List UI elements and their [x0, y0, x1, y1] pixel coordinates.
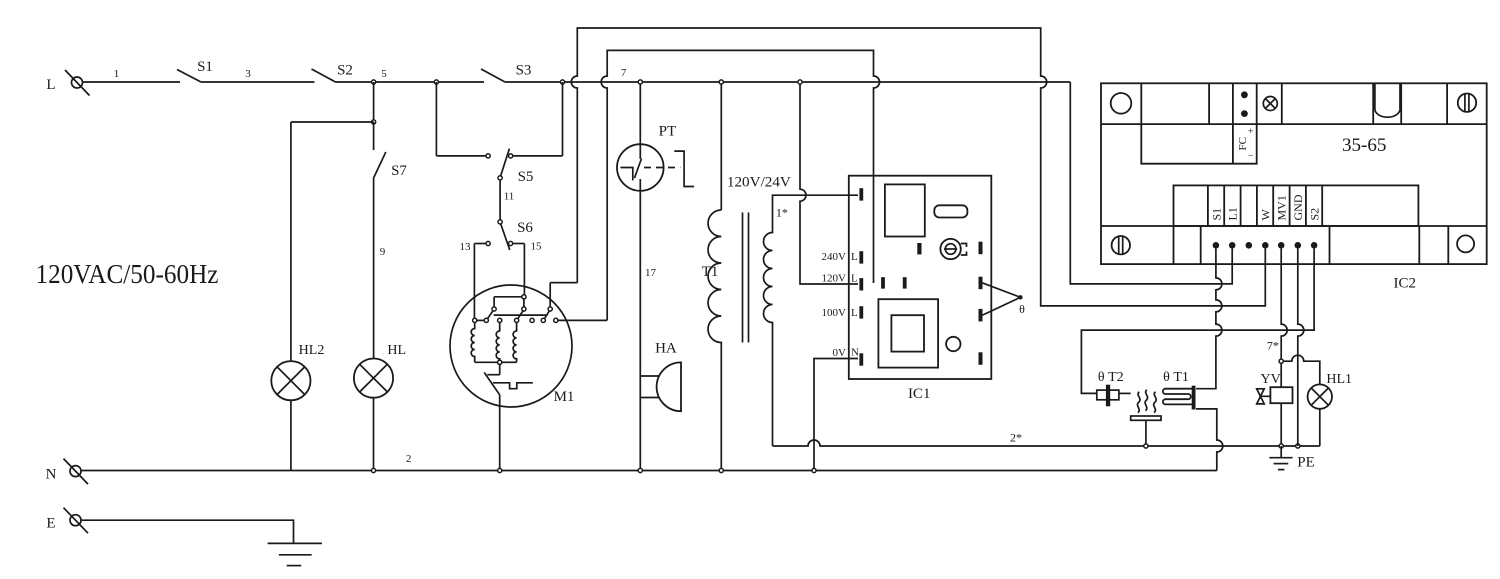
svg-text:HA: HA — [655, 340, 677, 356]
svg-text:−: − — [1248, 151, 1254, 162]
svg-text:T1: T1 — [702, 264, 719, 280]
svg-text:S1: S1 — [1209, 208, 1223, 221]
svg-text:5: 5 — [381, 68, 387, 80]
svg-text:S2: S2 — [1307, 208, 1321, 221]
svg-text:240V: 240V — [822, 251, 847, 263]
svg-text:L: L — [46, 77, 55, 93]
svg-text:S3: S3 — [516, 63, 532, 79]
svg-text:+: + — [1248, 127, 1254, 138]
svg-text:7*: 7* — [1267, 339, 1279, 353]
svg-text:L1: L1 — [1226, 207, 1240, 220]
svg-text:M1: M1 — [554, 389, 575, 405]
svg-text:120VAC/50-60Hz: 120VAC/50-60Hz — [36, 259, 219, 289]
svg-text:S5: S5 — [518, 169, 534, 185]
svg-text:1: 1 — [114, 68, 120, 80]
svg-text:L: L — [851, 251, 858, 263]
svg-text:PT: PT — [659, 124, 677, 140]
svg-text:S6: S6 — [517, 220, 533, 236]
svg-text:120V/24V: 120V/24V — [727, 175, 791, 191]
svg-text:S1: S1 — [197, 59, 213, 75]
svg-text:13: 13 — [460, 241, 472, 253]
svg-text:3: 3 — [245, 68, 251, 80]
svg-text:L: L — [851, 307, 858, 319]
svg-text:HL1: HL1 — [1326, 372, 1352, 387]
svg-text:IC1: IC1 — [908, 386, 931, 402]
svg-text:N: N — [851, 347, 859, 359]
svg-text:S7: S7 — [391, 163, 407, 179]
svg-text:0V: 0V — [833, 347, 847, 359]
svg-text:θ T1: θ T1 — [1163, 370, 1189, 385]
svg-text:W: W — [1258, 209, 1272, 221]
svg-text:11: 11 — [504, 191, 515, 203]
svg-text:1*: 1* — [776, 206, 788, 220]
svg-text:θ: θ — [1019, 302, 1025, 316]
svg-text:PE: PE — [1297, 455, 1315, 471]
svg-text:120V: 120V — [822, 273, 847, 285]
svg-text:15: 15 — [531, 241, 543, 253]
svg-text:E: E — [46, 516, 55, 532]
svg-text:MV1: MV1 — [1275, 195, 1289, 220]
svg-text:N: N — [46, 467, 57, 483]
svg-text:YV: YV — [1260, 372, 1280, 387]
svg-text:HL: HL — [387, 343, 406, 358]
svg-text:HL2: HL2 — [299, 343, 325, 358]
svg-text:IC2: IC2 — [1394, 276, 1417, 292]
svg-text:35-65: 35-65 — [1342, 135, 1387, 156]
svg-text:L: L — [851, 273, 858, 285]
svg-text:2: 2 — [406, 453, 412, 465]
svg-text:100V: 100V — [822, 307, 847, 319]
svg-text:FC: FC — [1237, 137, 1249, 150]
svg-text:7: 7 — [621, 67, 627, 79]
svg-text:θ T2: θ T2 — [1098, 370, 1124, 385]
svg-text:17: 17 — [645, 267, 657, 279]
svg-text:2*: 2* — [1010, 431, 1022, 445]
svg-text:9: 9 — [380, 246, 386, 258]
svg-text:GND: GND — [1291, 194, 1305, 220]
svg-text:S2: S2 — [337, 63, 353, 79]
